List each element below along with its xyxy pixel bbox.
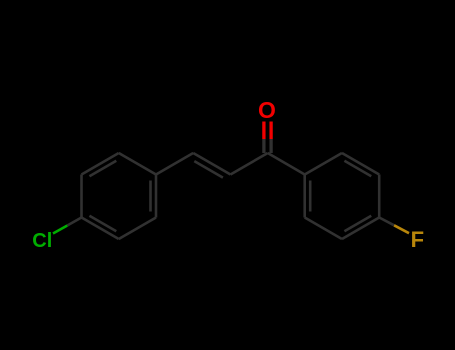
right ring edge C6'-C1' (left vertical) [303, 175, 306, 218]
bond C4-Cl carbon half (dark) [67, 218, 81, 226]
svg-text:F: F [411, 227, 424, 252]
left ring edge C3-C4 (bottom-left) [82, 218, 119, 240]
right ring edge C5'-C6' (bottom-left) [305, 218, 342, 240]
carbonyl C=O double bond right line carbon half (dark) [269, 139, 272, 153]
right benzene ring edge C1'-C2' (top-left) [305, 153, 342, 175]
left ring edge C4-C5 (left vertical) [80, 175, 83, 218]
left ring edge C6-C1 (top-right) [119, 153, 156, 175]
left ring double bond inner line C3-C4 [89, 216, 116, 232]
svg-text:O: O [258, 97, 276, 123]
left ring edge C5-C6 (top-left) [82, 153, 119, 175]
bond C4-Cl chlorine half (green) [53, 226, 67, 234]
carbonyl C=O double bond right line oxygen half (red) [269, 122, 272, 140]
bond C4'-F carbon half (dark) [379, 218, 394, 226]
bond C4'-F fluorine half (gold) [394, 225, 409, 233]
carbonyl C=O double bond left line oxygen half (red) [262, 122, 265, 140]
left ring edge C2-C3 (bottom-right) [119, 218, 156, 240]
vinyl C=C double bond second line [194, 161, 223, 178]
right ring edge C3'-C4' (right vertical) [378, 175, 381, 218]
vinyl C=C double bond main line [193, 153, 230, 175]
right ring double bond inner line C4'-C5' [344, 216, 371, 232]
bond Ccarbonyl-C1prime [268, 153, 305, 175]
right ring edge C2'-C3' (top-right) [342, 153, 379, 175]
carbonyl C=O double bond left line carbon half (dark) [262, 139, 265, 153]
svg-text:Cl: Cl [32, 230, 52, 252]
right ring double bond inner line C2'-C3' [344, 161, 371, 177]
right ring edge C4'-C5' (bottom-right) [342, 218, 379, 240]
right ring double bond inner line C6'-C1' [309, 181, 312, 212]
left ring double bond inner line C1-C2 [149, 181, 152, 212]
left benzene ring edge C1-C2 (right vertical) [155, 175, 158, 218]
bond C1-Cbeta (vinyl attachment) [156, 153, 193, 175]
bond Calpha-Ccarbonyl [231, 153, 268, 175]
left ring double bond inner line C5-C6 [89, 161, 116, 177]
